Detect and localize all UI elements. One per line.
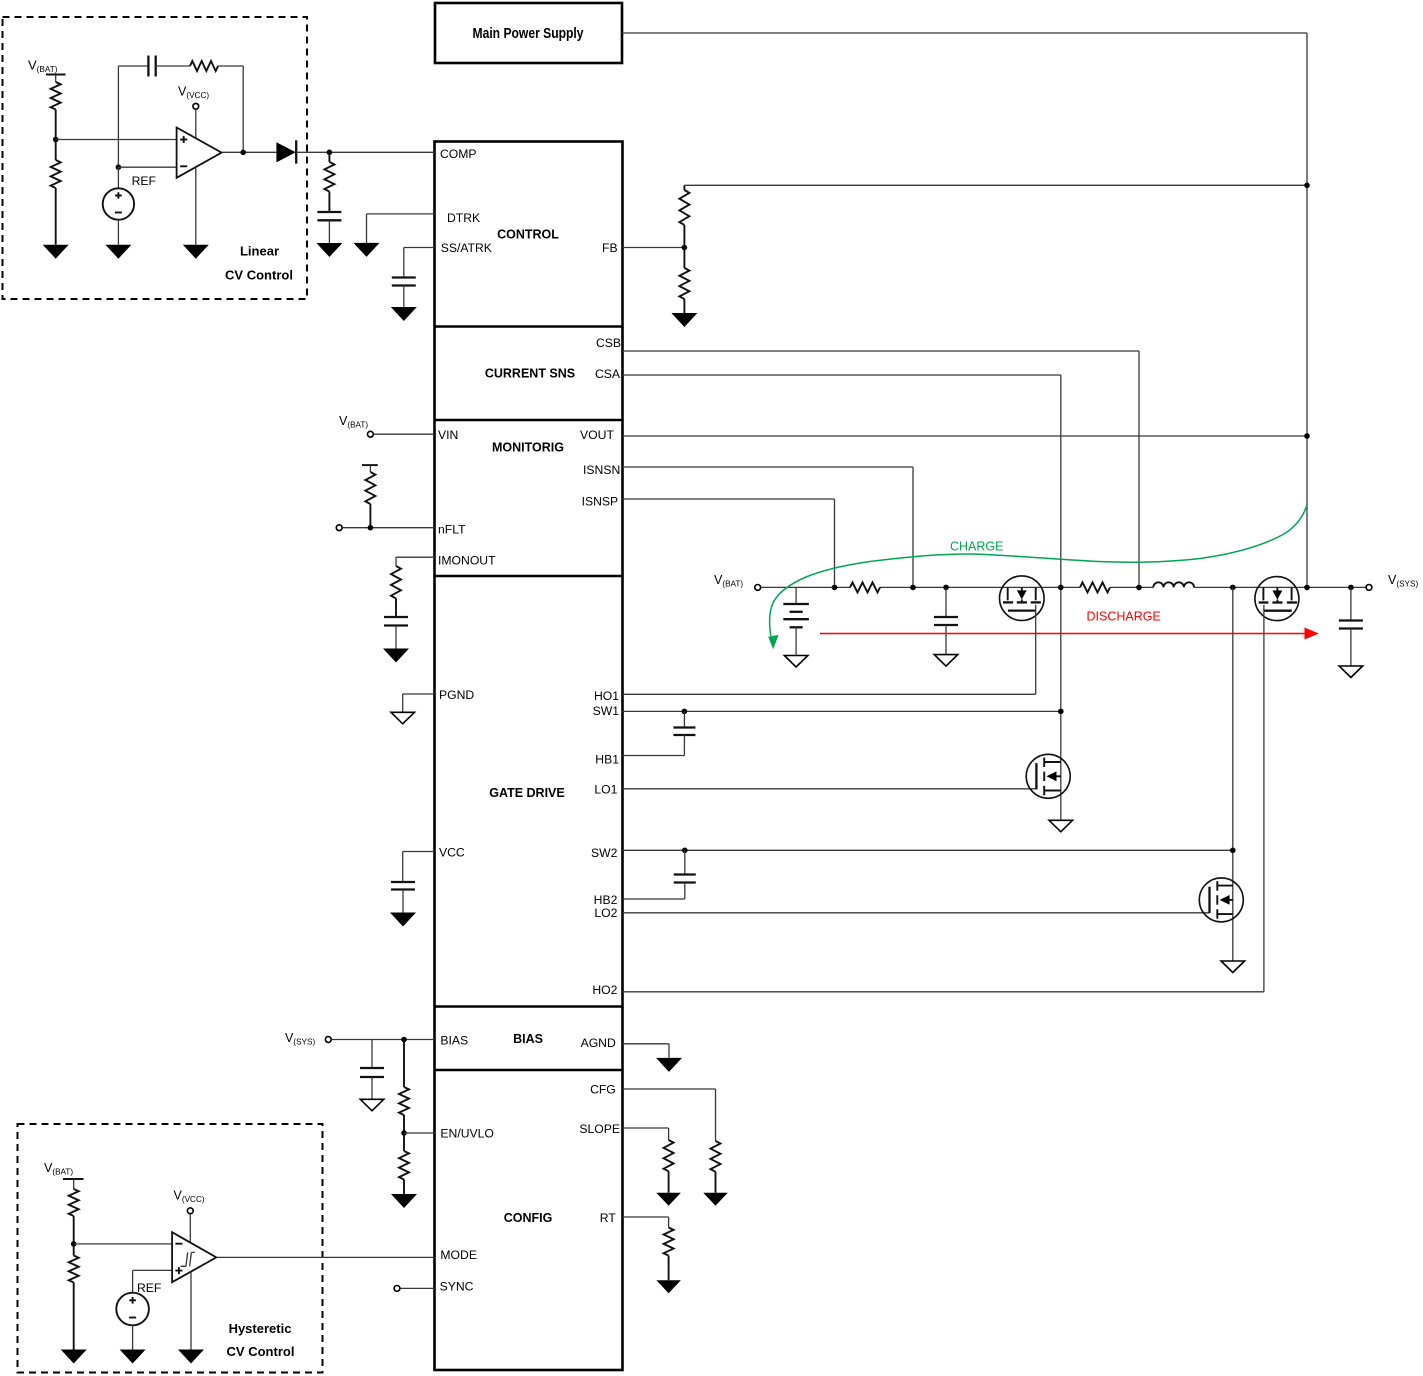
svg-text:VIN: VIN xyxy=(438,428,458,442)
svg-text:HO2: HO2 xyxy=(592,983,617,997)
resistor: input sense xyxy=(850,582,880,592)
ground: RT xyxy=(656,1280,681,1293)
svg-text:SLOPE: SLOPE xyxy=(579,1122,620,1136)
wire: feedback left vertical xyxy=(117,66,119,167)
ground: CFG xyxy=(703,1193,728,1206)
wire HB1 xyxy=(623,755,685,757)
svg-text:CV Control: CV Control xyxy=(225,268,293,283)
resistor: SLOPE xyxy=(664,1140,674,1171)
wire: VCC terminal to comparator xyxy=(189,1214,191,1243)
ground: IMONOUT xyxy=(383,649,409,663)
capacitor: output bypass xyxy=(1339,587,1363,666)
inductor L1 xyxy=(1153,582,1194,587)
wire ISNSP to rail xyxy=(623,499,835,587)
node: ISNSP on rail xyxy=(832,585,838,591)
node: FB divider tap xyxy=(682,245,688,251)
svg-text:CV Control: CV Control xyxy=(227,1344,295,1359)
wire: rail segment 4 xyxy=(1194,586,1366,588)
svg-text:CONFIG: CONFIG xyxy=(504,1211,553,1225)
wire: rail segment 2 xyxy=(880,586,1080,588)
svg-text:HB2: HB2 xyxy=(594,893,618,907)
svg-text:CSA: CSA xyxy=(595,367,621,381)
svg-text:RT: RT xyxy=(600,1211,617,1225)
svg-text:BIAS: BIAS xyxy=(513,1032,543,1046)
svg-text:CSB: CSB xyxy=(596,336,621,350)
ground: REF (hysteretic) xyxy=(120,1350,146,1364)
CHARGE arrowhead xyxy=(768,635,778,649)
wire: supply bar to divider xyxy=(55,75,57,83)
node: HB1 cap tap on SW1 xyxy=(682,709,688,715)
node: HB2 cap tap on SW2 xyxy=(682,848,688,854)
CHARGE flow curve xyxy=(770,505,1307,636)
ground: DTRK xyxy=(354,243,380,257)
capacitor: COMP compensation xyxy=(317,211,341,213)
terminal V(VCC) (hysteretic) xyxy=(187,1208,193,1214)
svg-text:CURRENT SNS: CURRENT SNS xyxy=(485,367,575,381)
ground: REF source (linear) xyxy=(105,245,131,259)
svg-text:SYNC: SYNC xyxy=(440,1279,474,1293)
supply bar above nFLT pull-up xyxy=(362,464,378,466)
svg-text:EN/UVLO: EN/UVLO xyxy=(440,1126,494,1140)
svg-text:ISNSP: ISNSP xyxy=(582,495,619,509)
svg-text:LO2: LO2 xyxy=(594,906,617,920)
svg-text:REF: REF xyxy=(137,1281,161,1295)
resistor: nFLT pull-up xyxy=(365,472,375,504)
capacitor: bootstrap HB2 xyxy=(674,850,696,899)
wire ISNSN to rail xyxy=(623,467,914,587)
wire HO1 to Q1 gate xyxy=(623,605,1036,695)
node: SW1 at Q3 drain xyxy=(1058,709,1064,715)
ground: AGND xyxy=(656,1058,682,1072)
V(BAT) supply bar (hysteretic) xyxy=(63,1178,84,1180)
node: input cap on rail xyxy=(943,585,949,591)
resistor: FB lower xyxy=(683,248,685,269)
wire BIAS xyxy=(332,1039,435,1041)
svg-text:FB: FB xyxy=(602,241,618,255)
ground: VCC bypass xyxy=(390,913,416,927)
svg-text:REF: REF xyxy=(132,174,156,188)
resistor: EN/UVLO upper xyxy=(403,1040,405,1088)
svg-text:MONITORIG: MONITORIG xyxy=(492,441,564,455)
ground: FB divider xyxy=(671,313,697,327)
resistor: EN/UVLO lower xyxy=(403,1133,405,1151)
svg-text:PGND: PGND xyxy=(439,688,474,702)
capacitor: IMONOUT filter xyxy=(384,616,408,618)
svg-text:MODE: MODE xyxy=(440,1248,477,1262)
node: VSYS column on rail xyxy=(1304,585,1310,591)
IC block outline xyxy=(435,142,623,1371)
wire LO1 to Q3 gate xyxy=(623,788,1037,790)
svg-text:ISNSN: ISNSN xyxy=(583,463,620,477)
wire: node to op-amp - input xyxy=(118,166,176,168)
wire: op-amp output xyxy=(222,151,277,153)
node: op-amp output/feedback xyxy=(240,150,246,156)
V(BAT) supply bar (linear box) xyxy=(46,74,66,76)
resistor: CFG xyxy=(711,1141,721,1172)
node: COMP RC tap xyxy=(327,150,333,156)
svg-text:CONTROL: CONTROL xyxy=(497,228,559,242)
svg-text:AGND: AGND xyxy=(581,1036,616,1050)
power ground: input cap xyxy=(934,655,958,667)
resistor: linear divider lower xyxy=(55,140,57,161)
wire SW2 xyxy=(623,849,1233,851)
wire: comparator output to MODE xyxy=(216,1256,434,1258)
node: SW2 on rail xyxy=(1230,585,1236,591)
terminal V(SYS) rail xyxy=(1366,585,1372,591)
capacitor: BIAS bypass xyxy=(360,1067,384,1069)
svg-text:COMP: COMP xyxy=(440,147,477,161)
resistor: RT xyxy=(664,1228,674,1256)
resistor: linear divider upper xyxy=(51,82,61,109)
wire: FB upper resistor to VSYS line xyxy=(684,184,1307,186)
wire: op-amp negative supply to ground xyxy=(195,168,197,245)
node: nFLT pull-up junction xyxy=(368,525,374,531)
node: ISNSN on rail xyxy=(910,585,916,591)
wire EN/UVLO xyxy=(404,1132,435,1134)
capacitor: VCC bypass xyxy=(391,881,415,883)
wire IMONOUT elbow xyxy=(396,557,435,566)
wire: SW2 column through Q4 xyxy=(1232,587,1234,961)
svg-text:SW1: SW1 xyxy=(593,704,620,718)
wire LO2 to Q4 gate xyxy=(623,912,1210,914)
wire SYNC xyxy=(400,1287,434,1289)
node: CSB on rail xyxy=(1136,585,1142,591)
wire HO2 to Q2 gate xyxy=(623,605,1264,992)
power ground: BIAS cap xyxy=(360,1099,384,1111)
svg-text:HB1: HB1 xyxy=(595,752,619,766)
capacitor: input bypass xyxy=(934,587,958,654)
svg-text:IMONOUT: IMONOUT xyxy=(438,554,496,568)
svg-text:GATE DRIVE: GATE DRIVE xyxy=(489,786,564,800)
svg-text:SS/ATRK: SS/ATRK xyxy=(441,241,492,255)
MOSFET Q1 (charge high-side, on rail) xyxy=(1000,576,1045,621)
wire FB pin to divider xyxy=(623,247,685,249)
resistor: COMP compensation xyxy=(328,152,330,162)
node: SW2 at Q4 drain xyxy=(1230,848,1236,854)
wire AGND xyxy=(623,1044,670,1058)
node: op-amp inverting input xyxy=(116,164,122,170)
wire: feedback top left segment xyxy=(118,65,147,67)
node: EN/UVLO tap xyxy=(401,1130,407,1136)
resistor: FB upper xyxy=(683,185,685,190)
node: divider tap (linear) xyxy=(53,137,59,143)
wire SS/ATRK to cap xyxy=(404,248,435,278)
ground: COMP RC xyxy=(316,243,342,257)
wire: SS cap to ground xyxy=(403,286,405,308)
svg-text:VCC: VCC xyxy=(439,846,465,860)
resistor: hysteretic divider upper xyxy=(69,1189,79,1216)
wire: IMONOUT cap to ground xyxy=(395,626,397,649)
node: CSA/SW1 on rail xyxy=(1058,585,1064,591)
ground: comparator supply xyxy=(178,1350,204,1364)
resistor: output sense xyxy=(1080,582,1110,592)
ground: EN/UVLO divider xyxy=(391,1194,417,1208)
wire CSB to rail xyxy=(623,351,1140,587)
wire: comp cap to ground xyxy=(328,220,330,243)
power ground: Q4 source xyxy=(1221,961,1245,973)
node: VOUT on VSYS column xyxy=(1304,433,1310,439)
power ground: output cap xyxy=(1339,666,1363,678)
wire SW1 xyxy=(623,710,1061,712)
wire: bar to pull-up resistor xyxy=(369,465,371,472)
ground: linear divider xyxy=(43,245,69,259)
node: FB top on VSYS column xyxy=(1304,183,1310,189)
svg-text:CHARGE: CHARGE xyxy=(950,540,1003,554)
wire: main supply output to VSYS rail column xyxy=(622,33,1307,587)
svg-text:nFLT: nFLT xyxy=(438,523,466,537)
svg-text:Main Power Supply: Main Power Supply xyxy=(473,26,584,42)
wire: bar to divider (hysteretic) xyxy=(73,1179,75,1189)
diode D1 (op-amp output) xyxy=(276,140,296,163)
capacitor: op-amp feedback xyxy=(147,56,149,77)
wire: REF to comparator + input xyxy=(133,1269,173,1271)
wire nFLT xyxy=(342,527,434,529)
ground: SS/ATRK xyxy=(391,307,417,321)
node: BIAS divider top xyxy=(401,1037,407,1043)
wire: tap to op-amp + input xyxy=(56,139,177,141)
MOSFET Q3 (low-side 1) xyxy=(1026,754,1070,798)
svg-text:SW2: SW2 xyxy=(591,846,618,860)
wire: cap to feedback resistor xyxy=(156,65,190,67)
ground: SLOPE xyxy=(656,1193,681,1206)
wire VOUT to VSYS column xyxy=(623,435,1308,437)
MOSFET Q4 (low-side 2) xyxy=(1199,878,1243,922)
svg-text:DISCHARGE: DISCHARGE xyxy=(1087,610,1161,624)
wire RT xyxy=(623,1217,669,1228)
wire: comparator negative supply xyxy=(190,1272,192,1350)
resistor: op-amp feedback xyxy=(190,61,218,71)
ground: hysteretic divider xyxy=(61,1350,87,1364)
wire VIN xyxy=(374,433,435,435)
Main Power Supply box xyxy=(435,3,622,63)
svg-text:LO1: LO1 xyxy=(594,782,617,796)
comparator U2 (hysteretic) xyxy=(172,1232,216,1282)
wire: BIAS cap stem xyxy=(371,1040,373,1069)
terminal nFLT xyxy=(336,525,342,531)
terminal BIAS V(SYS) xyxy=(325,1037,331,1043)
ground: op-amp supply xyxy=(183,245,209,259)
terminal V(VCC) (linear) xyxy=(193,103,199,109)
wire: tap to comparator - input xyxy=(74,1243,172,1245)
node: hysteretic divider tap xyxy=(71,1241,77,1247)
svg-text:VOUT: VOUT xyxy=(580,428,614,442)
wire: feedback resistor to output node xyxy=(218,65,243,67)
terminal V(BAT) rail xyxy=(755,585,761,591)
Linear CV Control dashed box xyxy=(3,17,308,299)
wire: power rail segment 1 xyxy=(761,586,850,588)
node: output cap on rail xyxy=(1348,585,1354,591)
power ground: battery xyxy=(784,656,808,668)
wire VCC xyxy=(403,852,435,883)
power ground: Q3 source xyxy=(1049,820,1073,832)
capacitor: SS/ATRK soft start xyxy=(392,276,416,278)
wire: rail segment 3 xyxy=(1110,586,1153,588)
svg-text:Linear: Linear xyxy=(240,244,279,259)
wire DTRK to ground xyxy=(367,214,435,243)
DISCHARGE flow arrow xyxy=(820,628,1319,640)
MOSFET Q2 (discharge high-side, on rail) xyxy=(1255,577,1299,621)
capacitor: bootstrap HB1 xyxy=(673,711,695,755)
op-amp U1 (linear CV control) xyxy=(177,128,222,178)
voltage source REF (hysteretic) xyxy=(116,1270,149,1349)
battery (VBAT) xyxy=(783,587,809,655)
wire: VCC terminal to op-amp xyxy=(195,110,197,139)
wire CSA to SW1 column xyxy=(623,375,1061,820)
svg-text:Hysteretic: Hysteretic xyxy=(229,1321,292,1336)
resistor: hysteretic divider lower xyxy=(73,1244,75,1256)
terminal VIN xyxy=(368,431,374,437)
Hysteretic CV Control dashed box xyxy=(18,1124,323,1373)
wire: diode to COMP pin xyxy=(296,151,434,153)
power ground: PGND xyxy=(391,712,415,724)
wire: VCC cap to ground xyxy=(402,890,404,913)
svg-text:HO1: HO1 xyxy=(594,689,619,703)
terminal SYNC xyxy=(394,1286,400,1292)
wire HB2 xyxy=(623,898,685,900)
wire SLOPE xyxy=(623,1128,669,1140)
resistor: IMONOUT filter xyxy=(391,566,401,598)
wire PGND xyxy=(403,694,435,712)
wire CFG xyxy=(623,1089,716,1141)
svg-text:CFG: CFG xyxy=(590,1083,616,1097)
svg-text:BIAS: BIAS xyxy=(440,1034,468,1048)
svg-text:DTRK: DTRK xyxy=(447,211,480,225)
wire: BIAS cap to ground xyxy=(371,1077,373,1099)
voltage source REF (linear) xyxy=(103,167,134,245)
